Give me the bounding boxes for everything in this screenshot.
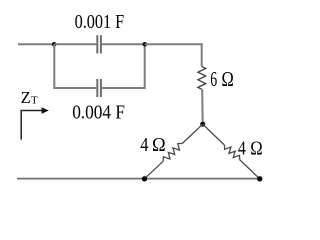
capacitor C1 0.001 F plates [96, 35, 102, 53]
svg-text:Z: Z [21, 88, 31, 107]
svg-text:Ω: Ω [152, 134, 166, 156]
svg-text:4: 4 [140, 134, 148, 156]
svg-text:0.004 F: 0.004 F [72, 102, 125, 124]
resistor R1 6 ohm zigzag [198, 67, 206, 90]
wire top branch left of capacitor C1 [54, 43, 96, 45]
Z_T arrow indicator [21, 107, 49, 139]
svg-text:Ω: Ω [222, 67, 234, 91]
wire right vertical of parallel loop [144, 44, 146, 89]
svg-text:T: T [31, 95, 38, 107]
wire top branch right of capacitor C1 [102, 43, 145, 45]
node C junction dot [200, 122, 205, 127]
wire left vertical of parallel loop [53, 44, 55, 88]
node D junction dot [142, 176, 147, 181]
svg-text:Ω: Ω [250, 138, 262, 160]
wire below resistor R1 to node C [201, 89, 204, 124]
node E junction dot [257, 176, 262, 181]
bottom wire [17, 178, 260, 180]
svg-text:4: 4 [238, 138, 246, 160]
resistor R2 4 ohm left diagonal [145, 124, 203, 179]
wire top from node B to right corner [145, 43, 203, 45]
node B junction dot [143, 42, 148, 47]
wire bottom branch left of capacitor C2 [53, 87, 96, 89]
svg-text:0.001 F: 0.001 F [75, 11, 125, 33]
wire bottom branch right of capacitor C2 [102, 87, 146, 89]
wire top-left terminal lead [18, 43, 54, 45]
resistor R3 4 ohm right diagonal [203, 124, 260, 179]
wire right vertical down to resistor R1 [201, 43, 203, 66]
capacitor C2 0.004 F plates [96, 79, 102, 97]
node A junction dot [52, 42, 57, 47]
svg-text:6: 6 [210, 67, 217, 91]
